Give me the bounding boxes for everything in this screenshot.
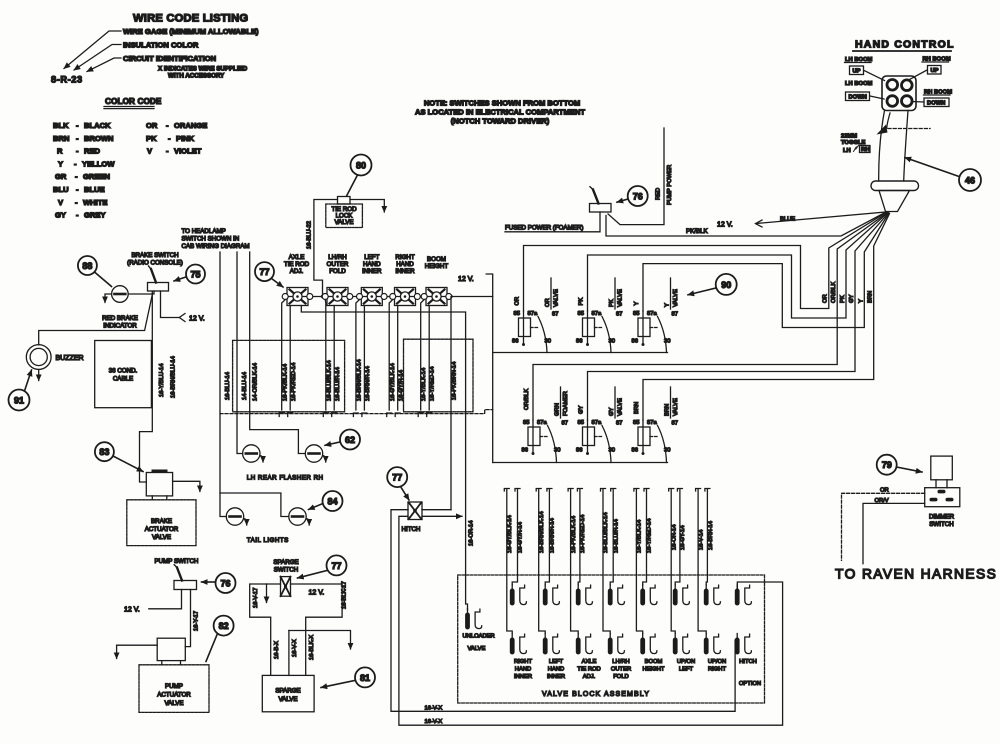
svg-text:16-Y/BLK-14: 16-Y/BLK-14	[637, 519, 643, 553]
brake actuator connector	[146, 470, 172, 496]
svg-text:-: -	[166, 147, 169, 156]
wire pair1 GY to valve block	[504, 489, 523, 634]
wire pump connector ground arrow	[117, 645, 158, 658]
callout 75	[174, 265, 205, 284]
svg-text:87: 87	[562, 421, 568, 427]
svg-text:UP/ON: UP/ON	[708, 659, 726, 665]
legend leader line 3	[87, 58, 121, 72]
svg-text:16-BLU-22: 16-BLU-22	[307, 221, 313, 249]
wire brake connector to ground arrow	[173, 481, 200, 491]
legend note x indicates	[158, 66, 248, 80]
pump actuator valve box	[139, 665, 209, 713]
callout 79	[877, 455, 922, 475]
svg-text:RIGHT: RIGHT	[395, 254, 414, 261]
svg-text:90: 90	[721, 280, 731, 290]
svg-text:GREY: GREY	[84, 211, 106, 220]
svg-text:12 V.: 12 V.	[309, 590, 325, 597]
switch label axle tie rod adj	[284, 254, 310, 275]
svg-text:16-PK/BLK-14: 16-PK/BLK-14	[571, 515, 577, 553]
svg-text:22MM: 22MM	[841, 134, 857, 140]
label 12V switch bus	[458, 276, 474, 283]
wire sparge middle 16-V-X	[289, 631, 351, 676]
svg-text:LH/RH: LH/RH	[612, 659, 629, 665]
svg-text:SPARGE: SPARGE	[273, 559, 298, 566]
svg-text:HAND: HAND	[515, 667, 531, 673]
svg-text:TO HEADLAMP: TO HEADLAMP	[182, 228, 226, 235]
valve label hitch option	[739, 659, 761, 687]
svg-text:INNER: INNER	[547, 674, 565, 680]
svg-text:TIE ROD: TIE ROD	[284, 261, 310, 268]
svg-text:INNER: INNER	[514, 674, 532, 680]
svg-text:12 V.: 12 V.	[458, 276, 474, 283]
wire brake switch to 12V	[161, 291, 186, 322]
svg-text:RED: RED	[84, 147, 101, 156]
svg-text:Y: Y	[665, 303, 671, 307]
valve label up/on right	[708, 659, 727, 673]
rocker switch lh/rh outer fold	[322, 288, 353, 306]
wire PK/BLK	[606, 212, 886, 236]
svg-text:77: 77	[259, 267, 269, 277]
svg-text:-: -	[76, 147, 79, 156]
svg-text:16-GY/BLK-14: 16-GY/BLK-14	[507, 515, 513, 553]
svg-text:16-PK/RED-14: 16-PK/RED-14	[291, 362, 297, 401]
wire label 14-BLU-14	[242, 371, 248, 400]
wire indicator to ground arrow	[105, 294, 112, 303]
junction dot bus x450	[449, 295, 452, 298]
svg-text:BRAKE: BRAKE	[151, 518, 172, 525]
callout 76 fused power	[617, 186, 648, 206]
switch label lh/rh outer fold	[327, 254, 349, 275]
svg-text:16-BRN/R-14: 16-BRN/R-14	[550, 517, 556, 553]
wire sparge right 16-BLK-17	[291, 581, 348, 675]
relay GY valve	[576, 387, 624, 463]
svg-text:INDICATOR: INDICATOR	[103, 323, 137, 330]
svg-text:HEIGHT: HEIGHT	[425, 263, 449, 270]
svg-text:16-V-17: 16-V-17	[253, 588, 259, 608]
svg-text:16-BRN/BLK-14: 16-BRN/BLK-14	[539, 511, 545, 553]
callout 80	[347, 155, 372, 197]
wire 16-OR-14 axle switch to unloader valve	[301, 306, 467, 611]
joystick shaft	[879, 111, 908, 182]
wire pair5 Y to valve block	[634, 489, 653, 634]
svg-text:16-BRN/BLU-14: 16-BRN/BLU-14	[171, 355, 177, 398]
switch bus 12V	[286, 296, 493, 298]
svg-text:16-BLU-14: 16-BLU-14	[225, 371, 231, 400]
svg-text:79: 79	[882, 460, 892, 470]
svg-text:PK: PK	[579, 298, 585, 306]
svg-text:BRAKE SWITCH: BRAKE SWITCH	[131, 252, 178, 259]
svg-text:YELLOW: YELLOW	[82, 159, 115, 168]
svg-text:86: 86	[522, 448, 528, 454]
svg-text:OUTER: OUTER	[327, 261, 349, 268]
relay bus row2	[493, 462, 668, 464]
svg-text:PUMP SWITCH: PUMP SWITCH	[155, 558, 199, 565]
wire PK harness	[588, 213, 889, 319]
pump switch label	[155, 558, 199, 565]
svg-text:AXLE: AXLE	[582, 659, 597, 665]
svg-text:TIE ROD: TIE ROD	[577, 667, 601, 673]
svg-text:ADJ.: ADJ.	[583, 674, 596, 680]
note switches shown from bottom	[415, 99, 585, 126]
svg-text:16-BLU/BLK-14: 16-BLU/BLK-14	[603, 512, 609, 553]
svg-text:12 V.: 12 V.	[189, 316, 205, 323]
svg-text:VALVE: VALVE	[152, 534, 171, 541]
svg-text:87: 87	[672, 312, 678, 318]
fused power toggle switch	[590, 187, 612, 212]
svg-text:VALVE: VALVE	[673, 398, 679, 416]
wire red pump power	[608, 128, 673, 225]
leader up-right button	[910, 70, 928, 80]
relay PK valve	[576, 278, 624, 353]
svg-text:GY: GY	[579, 405, 585, 414]
wire OR to raven	[842, 488, 925, 561]
wire pair3 PK to valve block	[568, 489, 586, 634]
svg-text:85: 85	[578, 311, 584, 317]
callout 90	[688, 274, 737, 295]
36 cond cable box	[95, 341, 152, 408]
valve block assembly box	[458, 575, 765, 703]
solenoid row2	[510, 634, 752, 655]
svg-text:16-V-X: 16-V-X	[292, 639, 298, 657]
leader up-left button	[864, 71, 885, 81]
wire hitch right to 12V	[422, 509, 451, 511]
svg-text:WITH ACCESSORY: WITH ACCESSORY	[168, 73, 225, 80]
wire hitch to unloader arrow	[422, 515, 462, 517]
svg-text:UP: UP	[931, 68, 939, 74]
svg-text:DOWN: DOWN	[927, 101, 945, 107]
relay Y valve	[632, 278, 680, 353]
svg-text:87a: 87a	[647, 420, 657, 426]
svg-text:16-Y/RED-14: 16-Y/RED-14	[647, 518, 653, 553]
valve label up/on left	[677, 659, 695, 673]
svg-text:PUMP POWER: PUMP POWER	[667, 165, 673, 205]
svg-text:BRN: BRN	[634, 402, 640, 414]
svg-text:FOLD: FOLD	[329, 268, 346, 275]
wire GY harness	[588, 213, 889, 420]
wire label 16-OR-14 vertical	[468, 520, 474, 546]
lamp RH tail light	[289, 508, 309, 525]
svg-text:-: -	[75, 198, 78, 207]
callout 88	[78, 256, 112, 287]
svg-text:16-B-X: 16-B-X	[274, 641, 280, 659]
svg-text:86: 86	[576, 448, 582, 454]
svg-text:8-R-23: 8-R-23	[51, 75, 83, 85]
callout 84	[309, 491, 343, 511]
svg-text:VALVE: VALVE	[618, 289, 624, 307]
sparge valve box	[262, 675, 314, 711]
callout 46	[905, 158, 981, 192]
svg-text:UP: UP	[853, 69, 861, 75]
svg-text:OR: OR	[146, 121, 158, 130]
svg-text:FOLD: FOLD	[613, 674, 628, 680]
svg-text:RIGHT: RIGHT	[514, 659, 532, 665]
svg-text:SWITCH: SWITCH	[929, 521, 953, 528]
switch3 pair wires down	[353, 300, 367, 417]
svg-text:75: 75	[190, 269, 200, 279]
svg-text:77: 77	[331, 561, 341, 571]
svg-text:BLK: BLK	[53, 121, 69, 130]
sparge switch symbol	[281, 577, 291, 597]
wire hitch bottom 16-V-X loop to valve block row1	[399, 516, 783, 725]
svg-text:LH: LH	[843, 148, 851, 154]
svg-text:-: -	[76, 185, 79, 194]
svg-text:87a: 87a	[528, 311, 538, 317]
leader down-left button	[870, 96, 884, 99]
wire 14-OR/BLK-14 to RH flasher	[250, 252, 306, 454]
svg-text:OPTION: OPTION	[739, 681, 761, 687]
buzzer	[26, 345, 83, 370]
hitch label	[402, 526, 421, 533]
label lh boom up	[845, 57, 873, 75]
svg-text:WIRE GAGE (MINIMUM ALLOWABLE): WIRE GAGE (MINIMUM ALLOWABLE)	[123, 27, 259, 36]
svg-text:BUZZER: BUZZER	[56, 355, 84, 362]
svg-text:PUMP: PUMP	[165, 683, 183, 690]
svg-text:GRN: GRN	[555, 403, 561, 416]
wire label 16-Y/BLU-14	[159, 363, 165, 397]
svg-text:14-BLU-14: 14-BLU-14	[242, 371, 248, 400]
wire tie rod valve right with ground arrow	[350, 200, 384, 213]
svg-text:85: 85	[633, 420, 639, 426]
svg-text:UNLOADER: UNLOADER	[463, 634, 495, 640]
svg-text:ACTUATOR: ACTUATOR	[157, 692, 191, 699]
svg-text:16-V-X: 16-V-X	[425, 719, 443, 725]
svg-text:CIRCUIT IDENTIFICATION: CIRCUIT IDENTIFICATION	[123, 54, 216, 63]
wire OR/V to raven	[863, 498, 925, 564]
label tail lights	[247, 537, 289, 544]
svg-text:82: 82	[219, 621, 229, 631]
relay bus row1	[493, 352, 668, 354]
svg-text:HAND: HAND	[396, 261, 414, 268]
svg-text:VALVE: VALVE	[334, 219, 353, 226]
svg-text:87a: 87a	[537, 420, 547, 426]
dashed link wire under band	[220, 410, 493, 414]
valve label lh/rh outer fold	[611, 659, 631, 680]
svg-text:CAB WIRING DIAGRAM: CAB WIRING DIAGRAM	[182, 243, 250, 250]
svg-text:RED: RED	[656, 188, 662, 200]
svg-text:WIRE CODE LISTING: WIRE CODE LISTING	[133, 13, 248, 25]
svg-text:-: -	[168, 134, 171, 143]
svg-text:(NOTCH TOWARD DRIVER): (NOTCH TOWARD DRIVER)	[451, 117, 550, 126]
svg-text:16-PK/BLK-14: 16-PK/BLK-14	[282, 363, 288, 401]
svg-text:FOAMER: FOAMER	[563, 391, 569, 416]
switch1 pair wires down	[279, 300, 293, 417]
callout 82	[206, 616, 234, 662]
svg-text:BOOM: BOOM	[645, 659, 663, 665]
wire label 16-BRN/BLU-14	[171, 355, 177, 398]
tie rod lock valve	[326, 204, 363, 228]
callout 77 axle switch	[255, 262, 283, 287]
svg-text:VALVE: VALVE	[164, 700, 183, 707]
callout 91	[9, 370, 32, 411]
svg-text:85: 85	[578, 420, 584, 426]
legend label insulation color	[123, 41, 199, 50]
wire pair6 OR GY to valve block	[669, 489, 686, 634]
svg-text:OR/BLK: OR/BLK	[524, 389, 530, 410]
wire pump switch to connector 16-Y-17	[185, 590, 199, 647]
svg-text:-: -	[76, 134, 79, 143]
svg-text:LH BOOM: LH BOOM	[845, 81, 873, 87]
switch4 pair wires down	[387, 300, 401, 417]
label lh boom down	[845, 81, 873, 101]
switch label right hand inner	[395, 254, 415, 275]
callout 77 hitch	[387, 467, 409, 500]
svg-text:PK: PK	[146, 134, 157, 143]
svg-text:DIMMER: DIMMER	[929, 514, 955, 521]
wire sparge left 16-V-17	[250, 584, 281, 675]
svg-text:AXLE: AXLE	[289, 254, 305, 261]
callout 81	[321, 667, 375, 687]
hitch switch	[408, 502, 422, 520]
svg-text:SWITCH: SWITCH	[274, 567, 298, 574]
wire OR harness	[524, 212, 888, 311]
svg-text:SPARGE: SPARGE	[275, 688, 300, 695]
svg-text:GY: GY	[55, 211, 66, 220]
svg-text:16-GY-14: 16-GY-14	[680, 525, 686, 550]
svg-text:16-PK/BRN-14: 16-PK/BRN-14	[452, 361, 458, 400]
svg-text:VALVE: VALVE	[554, 289, 560, 307]
wire tie rod valve to switch bus 16-BLU-22	[314, 200, 338, 297]
wire Y harness	[643, 213, 889, 328]
pump actuator connector	[157, 638, 185, 665]
wire pair4 BLU to valve block	[601, 489, 620, 634]
joystick collar	[871, 181, 919, 191]
wire headlamp 14-BLU-14 to LH flasher	[237, 252, 243, 454]
svg-text:14-OR/BLK-14: 14-OR/BLK-14	[253, 362, 259, 401]
svg-text:(RADIO CONSOLE): (RADIO CONSOLE)	[127, 260, 183, 267]
wire label 16-BLU-14	[225, 371, 231, 400]
lamp LH rear flasher	[243, 445, 263, 462]
svg-text:LH REAR FLASHER RH: LH REAR FLASHER RH	[247, 475, 324, 482]
svg-text:-: -	[76, 121, 79, 130]
svg-text:HEIGHT: HEIGHT	[643, 667, 665, 673]
svg-text:83: 83	[99, 447, 109, 457]
svg-text:86: 86	[576, 339, 582, 345]
svg-text:46: 46	[965, 175, 975, 185]
wire labels switch4 pair	[390, 363, 405, 401]
svg-text:Y: Y	[58, 159, 63, 168]
svg-text:16-BLU/R-14: 16-BLU/R-14	[335, 366, 341, 401]
color code list right column	[146, 121, 207, 156]
wire brake switch down through cable	[140, 292, 153, 482]
wire labels switch5 pair	[421, 366, 436, 401]
label 22mm toggle	[841, 134, 870, 155]
svg-text:BRN: BRN	[868, 291, 874, 303]
svg-text:LEFT: LEFT	[364, 254, 379, 261]
svg-text:BLUE: BLUE	[780, 217, 795, 223]
brake actuator valve box	[127, 500, 196, 546]
svg-text:UP/ON: UP/ON	[677, 659, 695, 665]
svg-text:VIOLET: VIOLET	[174, 147, 202, 156]
svg-text:12 V.: 12 V.	[717, 222, 733, 229]
svg-text:16-BRN/BLK-14: 16-BRN/BLK-14	[357, 359, 363, 401]
wire labels switch2 pair	[327, 360, 342, 401]
svg-text:LEFT: LEFT	[679, 667, 694, 673]
svg-text:16-BLK-X: 16-BLK-X	[309, 635, 315, 660]
legend sample code 8-R-23	[51, 75, 83, 85]
svg-text:V: V	[147, 147, 153, 156]
svg-text:OR/BLK: OR/BLK	[831, 282, 837, 303]
svg-text:-: -	[76, 211, 79, 220]
svg-text:PK/BLK: PK/BLK	[686, 228, 709, 235]
svg-text:OR: OR	[880, 488, 889, 494]
wire pump switch 12V	[124, 590, 182, 614]
svg-text:VALVE: VALVE	[618, 398, 624, 416]
svg-text:OUTER: OUTER	[611, 667, 631, 673]
svg-text:VALVE: VALVE	[278, 696, 297, 703]
label lh rear flasher rh	[247, 475, 324, 482]
svg-text:OR: OR	[545, 298, 551, 307]
sparge internal ground arrow	[266, 584, 268, 603]
svg-text:GY: GY	[609, 407, 615, 416]
solenoid row1	[510, 585, 752, 606]
svg-text:76: 76	[220, 578, 230, 588]
switch2 pair wires down	[323, 300, 336, 417]
rocker switch boom height	[421, 288, 452, 306]
valve label left hand inner	[547, 659, 565, 680]
svg-text:87: 87	[616, 312, 622, 318]
svg-text:86: 86	[512, 339, 518, 345]
svg-text:87a: 87a	[592, 311, 602, 317]
svg-text:LH/RH: LH/RH	[328, 254, 347, 261]
svg-text:62: 62	[345, 435, 355, 445]
svg-text:16-Y/BLU-14: 16-Y/BLU-14	[159, 363, 165, 397]
svg-text:TAIL LIGHTS: TAIL LIGHTS	[247, 537, 289, 544]
svg-text:CABLE: CABLE	[113, 376, 133, 383]
lamp LH tail light	[226, 508, 246, 525]
joystick base	[879, 191, 910, 212]
label rh boom up	[922, 57, 951, 75]
to headlamp note	[182, 228, 250, 250]
brake switch toggle	[148, 266, 169, 291]
svg-text:VALVE BLOCK ASSEMBLY: VALVE BLOCK ASSEMBLY	[542, 691, 650, 698]
svg-text:VALVE: VALVE	[468, 646, 486, 652]
toggle arrow on shaft	[877, 125, 931, 135]
svg-text:HITCH: HITCH	[739, 659, 757, 665]
band box B	[233, 340, 345, 411]
tie rod lock valve connector	[338, 197, 351, 205]
callout 76 pump	[202, 573, 236, 593]
legend label wire gage	[123, 27, 259, 36]
svg-text:16-BRN/R-14: 16-BRN/R-14	[365, 365, 371, 401]
brake switch label	[127, 252, 183, 267]
svg-text:INSULATION COLOR: INSULATION COLOR	[123, 41, 199, 50]
svg-text:85: 85	[514, 311, 520, 317]
svg-text:OR/V: OR/V	[875, 498, 889, 504]
wire hitch left 16-V-X to valve block row2	[391, 510, 737, 712]
band box C	[404, 339, 474, 412]
svg-text:16-Y/BLK-14: 16-Y/BLK-14	[421, 367, 427, 401]
wire 16-PK/BRN-14 from bus to hitch	[450, 297, 452, 510]
svg-text:-: -	[75, 172, 78, 181]
svg-text:16-OR-14: 16-OR-14	[468, 520, 474, 546]
svg-text:87: 87	[552, 312, 558, 318]
svg-text:RH: RH	[861, 147, 869, 153]
wire BRN harness	[643, 214, 890, 421]
joystick button cluster	[882, 76, 916, 111]
svg-text:Y: Y	[858, 299, 864, 303]
svg-text:OR: OR	[515, 297, 521, 306]
svg-text:COLOR CODE: COLOR CODE	[105, 97, 162, 106]
red brake indicator lamp	[112, 286, 129, 303]
rocker switch left hand inner	[357, 288, 388, 306]
svg-text:PK: PK	[609, 299, 615, 307]
rocker switch axle tie rod	[282, 288, 313, 306]
svg-text:INNER: INNER	[395, 268, 415, 275]
wire labels switch3 pair	[357, 359, 372, 401]
wire buzzer to brake switch diagonal	[39, 295, 153, 345]
wire label 14-OR/BLK-14	[253, 362, 259, 401]
svg-text:PK: PK	[840, 295, 846, 303]
